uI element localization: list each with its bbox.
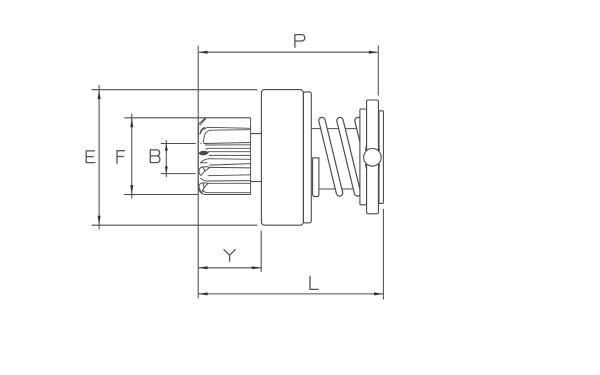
- centerline dot: [200, 142, 201, 144]
- gear pinion: [198, 118, 250, 195]
- collar stem: [367, 100, 379, 214]
- label B: [150, 150, 160, 163]
- tooth line 12: [210, 166, 251, 169]
- collar ball: [364, 149, 382, 167]
- arrow P right: [369, 51, 378, 54]
- tooth line 4: [204, 143, 251, 144]
- extension line B bottom: [161, 173, 196, 175]
- dimension L line: [198, 293, 383, 295]
- tooth triangle lens: [199, 167, 210, 176]
- spring envelope top: [311, 128, 360, 130]
- dimension B line: [165, 140, 167, 177]
- arrow Y right: [252, 266, 261, 269]
- extension line F bottom: [124, 194, 198, 196]
- gear bottom outer edge with J curve: [198, 184, 250, 195]
- collar neck nick right bottom: [378, 164, 379, 170]
- collar left plate: [360, 109, 367, 205]
- tooth line 7: [208, 151, 251, 153]
- collar right plate: [379, 111, 383, 204]
- tooth line 11: [210, 164, 251, 166]
- part outlines: [251, 90, 319, 226]
- extension line E top: [92, 89, 258, 91]
- tooth line 6: [206, 148, 251, 149]
- label P: [295, 35, 305, 48]
- letters (CAD style thin strokes): [86, 35, 318, 290]
- hub line upper (gear to body): [251, 133, 262, 135]
- dimension E line: [98, 85, 100, 230]
- arrow P left: [198, 51, 207, 54]
- label L: [310, 276, 318, 289]
- arrow E down: [98, 216, 101, 225]
- gear bottom lens: [199, 183, 208, 193]
- spring envelope bottom: [319, 188, 356, 190]
- gear top chamfer inner: [200, 118, 206, 125]
- arrow F down: [130, 185, 133, 194]
- tooth line 8: [209, 154, 251, 156]
- tooth line 9 with curl: [200, 159, 250, 163]
- extension line B top: [161, 143, 196, 145]
- arrow L right: [374, 292, 383, 295]
- extension line L right (collar rear face): [382, 209, 384, 300]
- extension line Y right (body front face): [260, 231, 262, 273]
- tooth triangle lens inner arc: [203, 167, 205, 171]
- clutch body housing: [261, 90, 303, 226]
- extension line F top (merges with gear top edge): [124, 117, 250, 119]
- arrow B up: [165, 144, 168, 151]
- label Y: [224, 250, 235, 262]
- label F: [117, 151, 124, 164]
- gear right face: [250, 118, 252, 195]
- spring coil 2: [340, 121, 358, 193]
- dimension P line: [199, 51, 378, 53]
- spring: [311, 121, 375, 193]
- arrow B down: [165, 167, 168, 174]
- tooth line 3 with sweep: [203, 130, 251, 144]
- gear top chamfer: [198, 118, 205, 134]
- body ring band: [303, 92, 311, 223]
- extension line left long (P/Y/L datum at gear front face): [197, 46, 199, 299]
- tooth curl C: [200, 178, 206, 181]
- extension line right of P (collar): [377, 46, 379, 96]
- tooth line 13: [208, 174, 251, 177]
- tooth line 14: [207, 180, 251, 182]
- tooth line 10 short: [200, 162, 207, 164]
- arrow F up: [130, 118, 133, 127]
- tooth line 2: [204, 127, 250, 129]
- sleeve step under spring: [313, 158, 319, 197]
- gear left face: [197, 124, 199, 186]
- collar neck nick left bottom: [365, 164, 366, 170]
- collar group: [360, 100, 384, 214]
- dimension F line: [131, 114, 133, 199]
- tooth line 16 inner bottom: [203, 190, 251, 192]
- spring coil 3 (behind collar): [358, 121, 376, 193]
- arrow L left: [198, 292, 207, 295]
- tooth line 15: [208, 182, 250, 184]
- label E: [86, 151, 95, 163]
- tooth dark lens mid: [199, 151, 209, 155]
- tooth line 5: [205, 144, 251, 146]
- gear bottom lens inner arc: [202, 183, 205, 190]
- hub line lower (gear to body): [251, 181, 262, 183]
- dimension Y line: [198, 267, 261, 269]
- extension line E bottom: [92, 224, 258, 226]
- arrow E up: [98, 90, 101, 99]
- spring coil 1: [322, 121, 340, 193]
- arrowheads: [98, 51, 384, 296]
- arrow Y left: [198, 266, 207, 269]
- collar neck nick right top: [378, 145, 379, 151]
- gear tooth lens top: [200, 128, 205, 135]
- collar neck nick left top: [365, 145, 366, 151]
